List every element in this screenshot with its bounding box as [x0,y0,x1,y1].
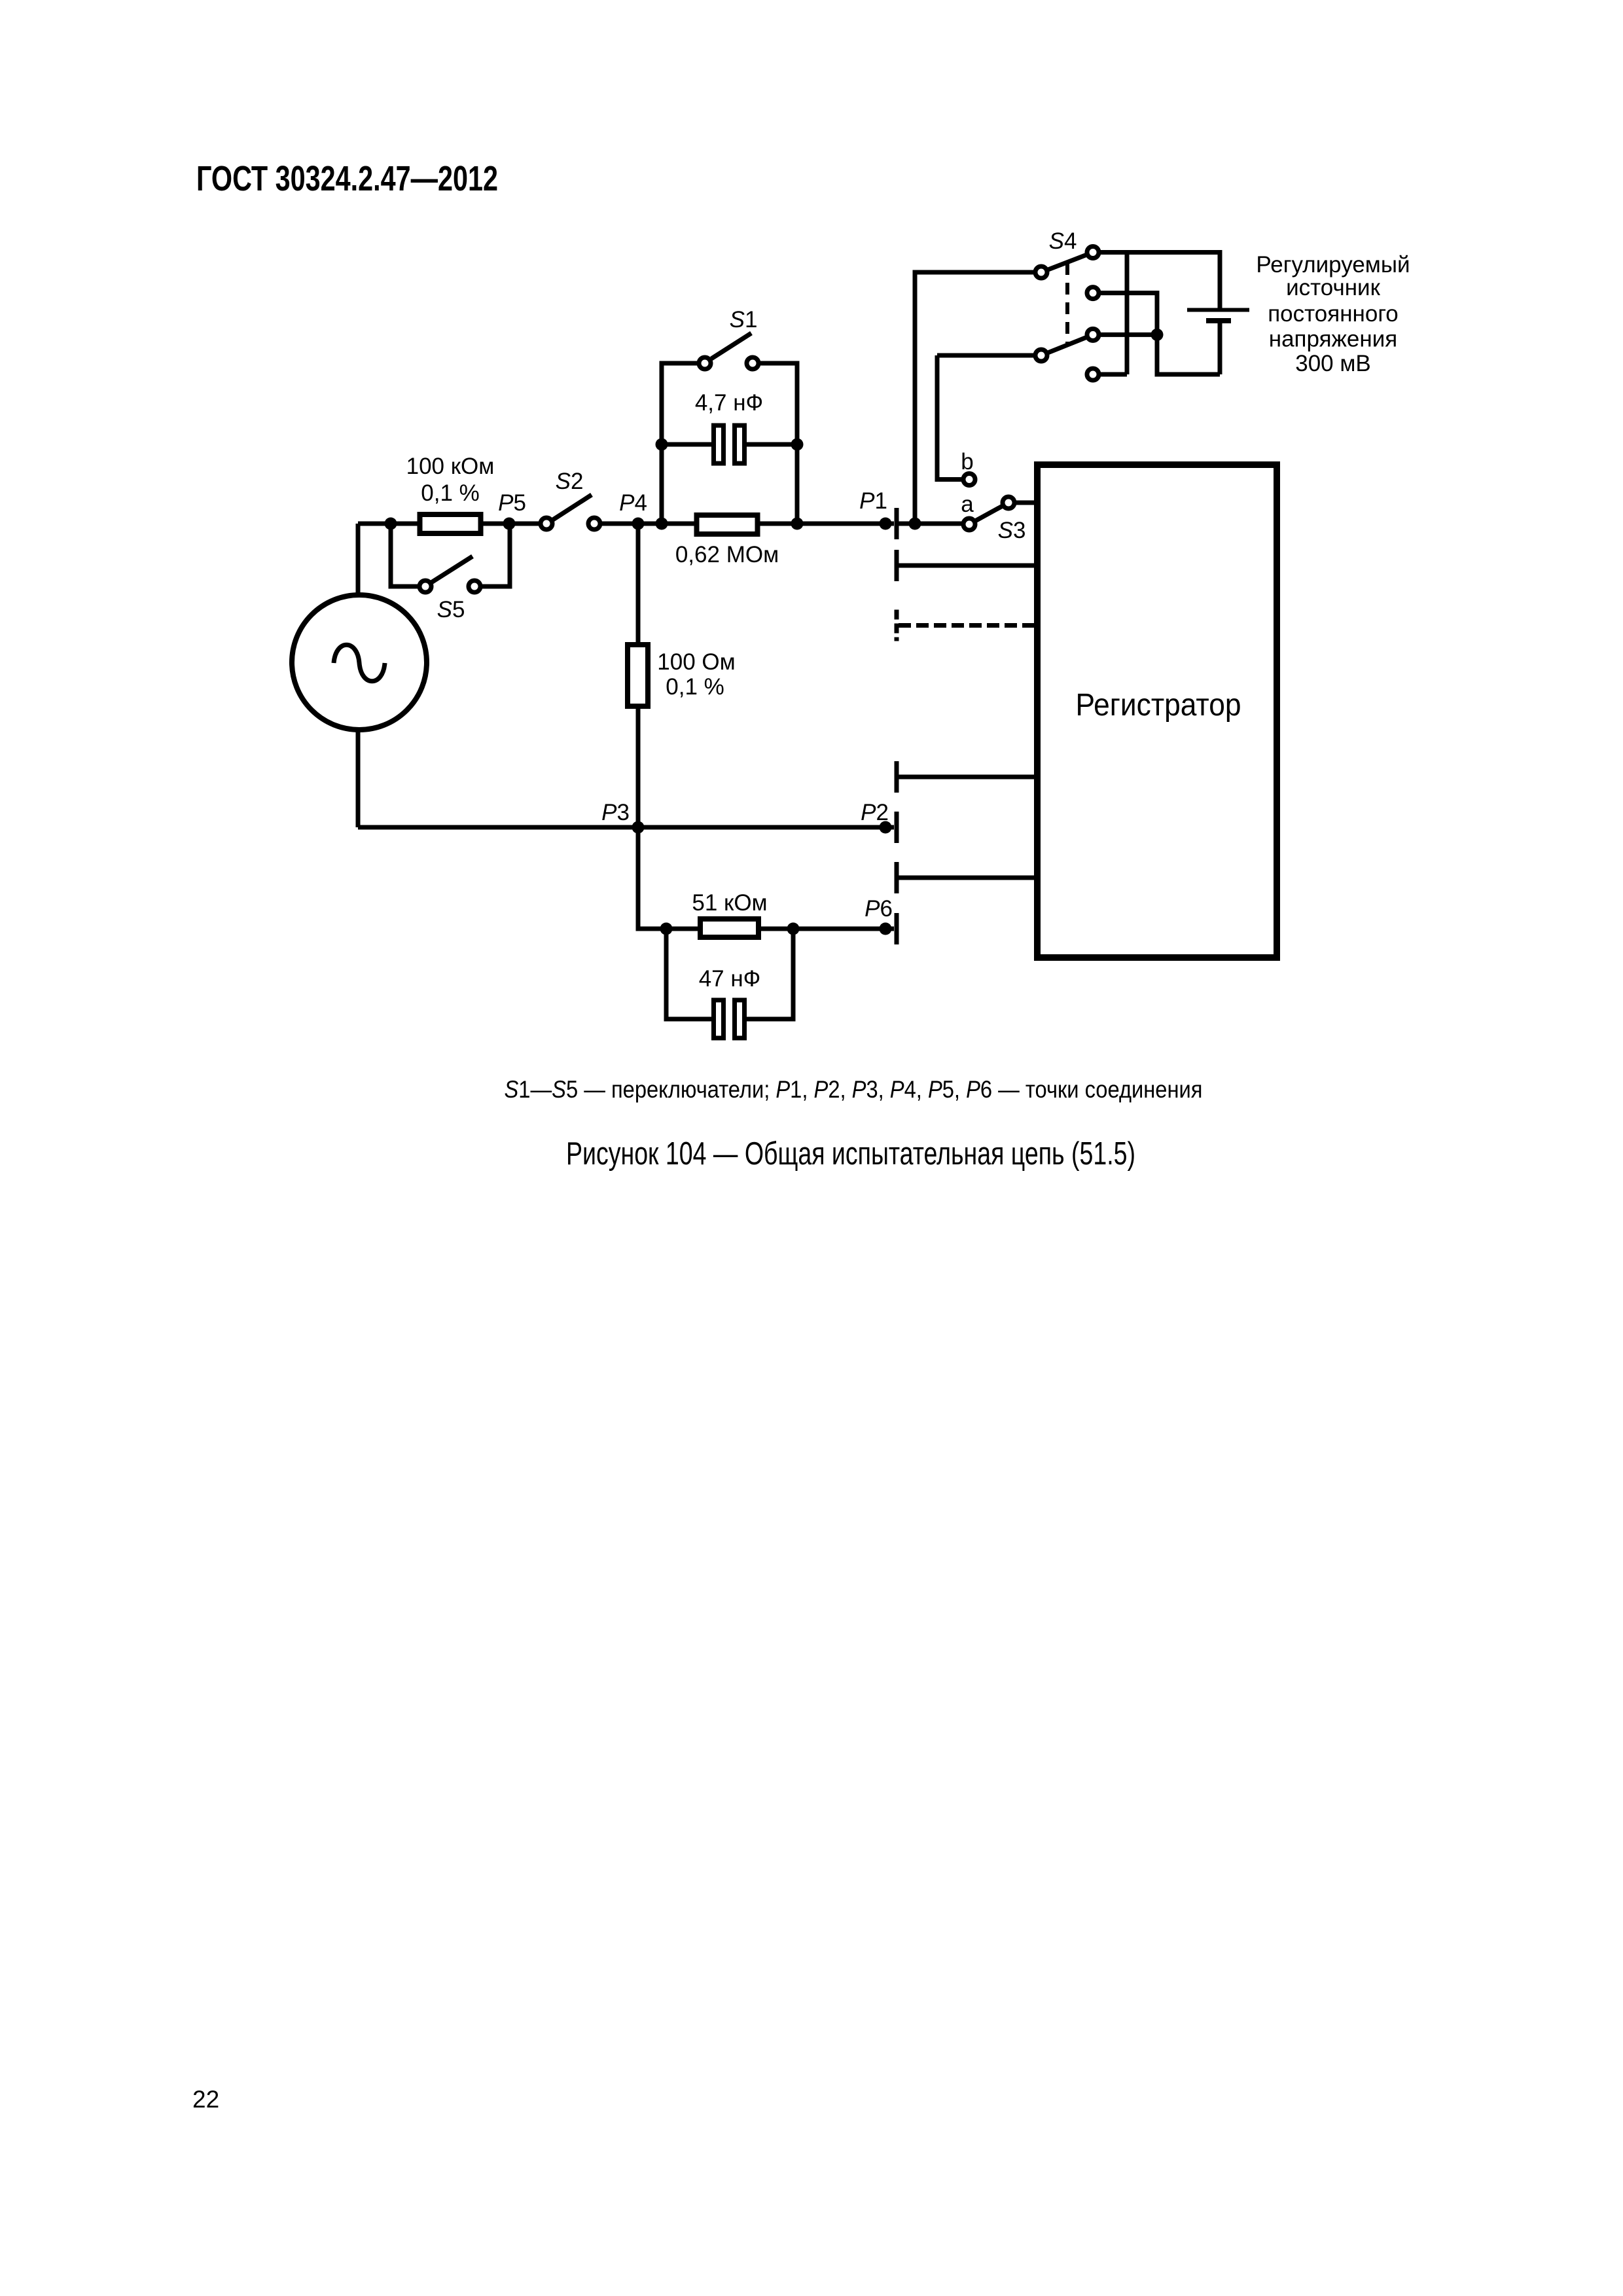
svg-text:постоянного: постоянного [1268,301,1399,327]
svg-text:300 мВ: 300 мВ [1295,351,1371,376]
svg-text:P6: P6 [865,896,893,922]
svg-text:P4: P4 [619,490,647,516]
svg-text:0,62 МОм: 0,62 МОм [675,542,779,567]
svg-text:ГОСТ 30324.2.47—2012: ГОСТ 30324.2.47—2012 [196,159,498,198]
svg-text:напряжения: напряжения [1269,327,1397,352]
svg-text:P3: P3 [601,800,630,825]
svg-text:Регистратор: Регистратор [1076,688,1241,723]
svg-text:b: b [961,449,973,475]
svg-text:P2: P2 [861,800,889,825]
svg-text:4,7 нФ: 4,7 нФ [695,390,763,416]
svg-text:P1: P1 [859,488,887,514]
svg-text:S2: S2 [556,469,584,494]
svg-text:S4: S4 [1049,228,1077,254]
svg-text:22: 22 [192,2086,219,2113]
svg-text:51 кОм: 51 кОм [692,890,767,916]
svg-text:S1: S1 [730,307,758,332]
svg-text:S3: S3 [998,518,1026,543]
svg-text:S1—S5 — переключатели; P1, P2,: S1—S5 — переключатели; P1, P2, P3, P4, P… [505,1076,1203,1103]
svg-text:a: a [961,492,974,517]
svg-text:100 кОм: 100 кОм [406,454,495,479]
svg-text:P5: P5 [498,490,526,516]
svg-text:Регулируемый: Регулируемый [1256,252,1410,278]
svg-text:0,1 %: 0,1 % [666,674,724,700]
svg-text:0,1 %: 0,1 % [421,480,480,506]
svg-text:Рисунок 104 — Общая испытатель: Рисунок 104 — Общая испытательная цепь (… [566,1136,1135,1172]
svg-text:S5: S5 [437,597,465,622]
svg-text:100 Ом: 100 Ом [657,649,735,675]
svg-text:47 нФ: 47 нФ [699,966,761,992]
svg-text:источник: источник [1286,275,1380,300]
